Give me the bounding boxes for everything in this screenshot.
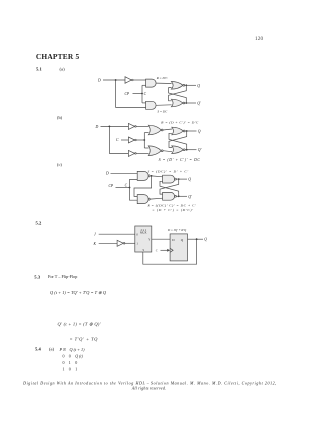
svg-text:5.2: 5.2 [36,220,42,225]
D flip-flop block [170,234,187,261]
DFF clock wedge [170,248,173,252]
wire Q' output (a) [185,102,196,104]
NOR gate Q' (b) [172,146,184,154]
svg-text:Q′: Q′ [197,102,201,106]
svg-text:S = (D′ + C′)′ = DC: S = (D′ + C′)′ = DC [159,158,201,162]
svg-text:0: 0 [63,354,65,359]
svg-text:S = (DC)′ = D′ + C′: S = (DC)′ = D′ + C′ [148,170,189,174]
wire Q output 5.2 [188,238,204,240]
wire C to AND R (a) [142,84,146,86]
svg-text:S = DC: S = DC [158,109,169,113]
svg-text:0: 0 [75,360,77,365]
junction Q (c) [178,178,180,180]
svg-text:Q (t + 1): Q (t + 1) [70,347,86,352]
svg-text:Q′ (t + 1) = (T ⊕ Q)′: Q′ (t + 1) = (T ⊕ Q)′ [58,322,102,327]
svg-text:= T′Q′ + TQ: = T′Q′ + TQ [70,337,99,342]
NAND gate S (c) [137,171,148,180]
wire S to NAND3 (c) [152,175,163,178]
wire CP to node C (a) [133,93,143,95]
svg-text:Q: Q [188,178,191,182]
svg-text:(b): (b) [57,115,63,120]
svg-text:C: C [144,92,147,96]
svg-text:R = (D + C′)′ = D′C: R = (D + C′)′ = D′C [160,121,199,125]
svg-text:D: D [97,79,101,83]
wire R to NAND pair (c) [150,197,162,200]
wire MUX to DFF D [152,238,170,240]
svg-text:(a): (a) [60,66,66,71]
feedback Q' to NOR Q (b) [169,133,187,149]
wire S to NAND2 (c) [134,176,152,197]
svg-text:0: 0 [63,360,65,365]
svg-text:CP: CP [125,92,130,96]
junction Q (a) [185,84,187,86]
wire inverter to AND R (a) [133,79,146,81]
NOR gate Q (a) [171,82,183,90]
wire Q' output (b) [185,149,196,151]
MUX block 2x1 [135,226,152,252]
svg-text:R = ((DC)′ C)′ = DC + C′: R = ((DC)′ C)′ = DC + C′ [147,203,197,207]
wire Q output (b) [185,130,196,132]
wire D to inverter (b) [101,125,129,127]
svg-text:Q (t + 1) = TQ′ + T′Q = T ⊕ Q: Q (t + 1) = TQ′ + T′Q = T ⊕ Q [50,290,107,295]
feedback Q' to NAND Q (c) [160,181,179,196]
svg-text:For T – Flip-Flop: For T – Flip-Flop [48,274,77,279]
svg-text:C: C [125,183,128,187]
AND gate R (a) [146,79,157,87]
svg-text:D = JQ′ + K′Q: D = JQ′ + K′Q [167,228,187,232]
svg-text:P N: P N [59,347,67,352]
wire Q' output (c) [176,195,187,197]
svg-text:K: K [93,242,97,246]
junction Q 5.2 [196,238,198,240]
svg-text:5.3: 5.3 [34,274,40,279]
svg-text:Q: Q [204,237,207,241]
wire C down to NAND2 (c) [130,188,138,201]
junction Q (b) [186,130,188,132]
NOR gate Q' (a) [171,99,183,107]
junction D branch (b) [109,126,111,128]
wire J to MUX [99,233,135,235]
svg-text:Q (t): Q (t) [75,354,83,359]
wire inverter to NOR R (b) [136,125,149,127]
AND gate S (a) [146,101,157,109]
junction S (c) [151,175,153,177]
inverter D' bottom (b) [128,150,134,156]
svg-text:All rights reserved.: All rights reserved. [131,386,167,391]
NAND gate Q (c) [163,175,175,183]
clock input arrow [161,249,169,251]
feedback Q to NOR Q' (b) [169,131,187,147]
inverter U1 (a) [125,77,132,84]
svg-text:0: 0 [69,354,71,359]
wire Q output (a) [185,84,196,86]
NOR gate S (b) [148,146,161,156]
NAND gate R (c) [137,195,148,204]
junction node C (a) [141,93,143,95]
feedback Q' to NOR Q (a) [169,88,187,103]
NOR gate R (b) [148,125,161,135]
NOR gate Q (b) [172,127,184,135]
svg-text:CHAPTER 5: CHAPTER 5 [36,52,80,61]
wire R to NOR pair (b) [163,129,172,130]
svg-text:D: D [105,172,109,176]
svg-text:C: C [116,138,119,142]
svg-text:0: 0 [69,367,71,372]
junction D branch (a) [115,79,117,81]
junction node C (c) [129,187,131,189]
wire R to NOR (a) [156,82,172,84]
wire C' vertical (b) [143,133,145,148]
inverter D' (b) [128,123,134,129]
svg-text:Q′: Q′ [188,195,192,199]
svg-text:(a): (a) [49,347,55,352]
svg-text:5.4: 5.4 [35,347,41,352]
wire C to AND S (a) [142,102,146,104]
feedback wire Q to MUX select [143,239,197,264]
feedback Q to NAND Q' (c) [160,179,179,194]
svg-text:R = D′C: R = D′C [156,76,169,80]
wire C up to NAND1 (c) [130,180,138,188]
svg-text:Q′: Q′ [198,148,202,152]
wire C' to branch (b) [136,139,145,141]
inverter K' [117,240,123,246]
NAND gate Q' (c) [163,192,175,200]
svg-text:(c): (c) [57,162,62,167]
svg-text:Q: Q [198,130,201,134]
svg-text:120: 120 [255,36,263,42]
svg-text:1: 1 [63,367,65,372]
wire Q output (c) [176,178,187,180]
wire C vertical (a) [141,85,143,103]
wire C' to NOR S (b) [144,147,148,149]
wire S to NOR pair (b) [163,151,172,152]
svg-text:1: 1 [69,360,71,365]
svg-text:= (D + C′) = (D′C)′: = (D + C′) = (D′C)′ [152,208,193,212]
junction Q' (a) [185,102,187,104]
wire CP to node C (c) [116,187,130,189]
svg-text:5.1: 5.1 [36,66,42,71]
wire C to inverter (b) [121,139,128,141]
wire K' to MUX [124,242,135,244]
inverter C' (b) [128,137,134,143]
wire K to inverter [99,242,117,244]
svg-text:J: J [94,233,96,237]
svg-text:1: 1 [75,367,77,372]
wire S to NOR (a) [156,104,172,107]
wire D to inverter (a) [103,79,125,81]
wire D down to AND S (a) [116,80,146,107]
feedback Q to NOR Q' (a) [169,85,187,101]
wire D to NAND1 (c) [111,172,138,174]
junction C' branch (b) [143,139,145,141]
svg-text:CP: CP [109,184,114,188]
wire D down to inverter bottom (b) [109,126,128,153]
svg-text:Q: Q [197,84,200,88]
wire C' to NOR R (b) [144,132,148,134]
junction Q' (c) [178,195,180,197]
wire inverter to NOR S (b) [136,152,149,154]
svg-text:Y: Y [148,238,150,241]
svg-text:MUX: MUX [140,231,147,234]
junction Q' (b) [186,149,188,151]
svg-text:D: D [95,125,99,129]
svg-text:C: C [156,249,158,252]
